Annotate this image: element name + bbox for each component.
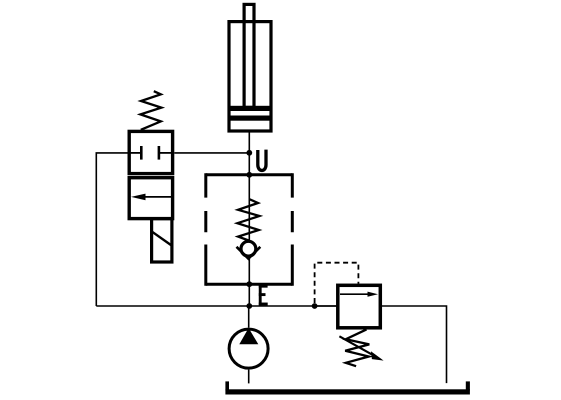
relief valve DB1 adjustment arrow head — [371, 351, 384, 360]
tank right wall — [466, 381, 470, 390]
relief valve DB1 pilot dashed line — [315, 263, 359, 303]
wire relief valve inlet — [315, 305, 338, 307]
valve V1 right blocked-port tick — [158, 146, 161, 160]
wire inside enclosure upper — [248, 175, 250, 240]
valve V1 left port stub — [129, 152, 141, 154]
node U label — [258, 150, 266, 171]
wire node E to pump — [248, 306, 250, 328]
wire pump suction to tank — [248, 370, 250, 384]
wire inside enclosure lower — [248, 258, 250, 307]
relief valve DB1 internal arrow head — [368, 292, 379, 297]
relief valve DB1 adjustment arrow line — [339, 336, 374, 356]
tank bottom — [225, 389, 470, 394]
relief valve DB1 internal arrow line — [340, 293, 370, 295]
relief valve DB1 spring — [345, 329, 369, 366]
valve V1 spring — [140, 91, 161, 130]
solenoid Y1 diagonal — [152, 232, 171, 246]
check valve seat — [237, 247, 261, 259]
pump P1 circle — [229, 329, 268, 368]
valve V1 top position box — [129, 131, 172, 173]
node E label — [259, 285, 268, 306]
valve V1 flow arrow line — [144, 196, 172, 198]
junction dot relief pilot tap — [312, 303, 318, 309]
solenoid Y1 box — [152, 219, 172, 262]
junction dot at enclosure top — [246, 172, 252, 178]
cylinder C1 piston bar upper — [229, 106, 271, 111]
cylinder C1 piston bar lower — [229, 116, 271, 121]
node U junction dot — [246, 150, 252, 156]
wire bottom bus — [96, 305, 336, 307]
wire relief valve outlet to tank — [380, 306, 446, 383]
pilot check valve enclosure left dashed edge — [204, 173, 207, 285]
valve V1 bottom position box — [129, 178, 172, 219]
pilot check valve enclosure top edge — [206, 173, 292, 176]
junction dot at enclosure bottom — [246, 281, 252, 287]
node E junction dot — [246, 303, 252, 309]
tank left wall — [225, 381, 229, 390]
pilot check valve enclosure bottom edge — [206, 283, 292, 286]
relief valve DB1 box — [338, 285, 381, 328]
pilot check valve enclosure right dashed edge — [291, 173, 294, 285]
cylinder C1 rod — [244, 4, 254, 107]
wire cylinder to node U — [248, 133, 250, 175]
wire valve right port to node U — [174, 152, 249, 154]
pump P1 flow triangle — [239, 328, 258, 344]
valve V1 flow arrow head — [131, 194, 146, 201]
valve V1 left blocked-port tick — [140, 146, 143, 160]
check valve ball circle — [241, 241, 256, 256]
valve V1 right port stub — [159, 152, 173, 154]
wire valve left port to left riser — [96, 153, 127, 306]
check valve spring — [237, 199, 259, 241]
cylinder C1 body — [229, 22, 271, 131]
